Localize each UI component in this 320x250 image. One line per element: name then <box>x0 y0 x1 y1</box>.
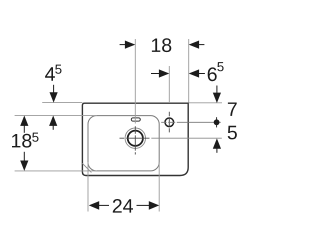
dimension 18 text <box>152 38 171 52</box>
dimension 18 left arrow <box>125 41 135 49</box>
dimension 5 up arrow tail <box>216 148 218 153</box>
dimension 18.5 text <box>12 134 31 148</box>
dimension 7 text <box>228 103 237 116</box>
extension line y=102.6 top edge left <box>42 102 82 104</box>
drain crosshair horizontal <box>120 137 150 139</box>
dimension 4.5 down arrow tail <box>53 85 55 94</box>
dimension 18 right arrow <box>189 41 199 49</box>
extension line x=88 bowl left down <box>87 162 89 212</box>
dimension 5 text <box>228 126 237 140</box>
extension line x=188.7 right edge up <box>188 39 190 103</box>
reference line y=170.9 bowl front left <box>15 170 97 172</box>
dimension 6.5 text <box>208 67 217 81</box>
extension line x=135.3 drain vertical <box>134 39 136 124</box>
faucet crosshair horizontal <box>161 121 221 123</box>
overflow slot <box>131 118 140 121</box>
dimension 6.5 left tail <box>151 73 161 75</box>
dimension 6.5 left arrow <box>159 69 169 77</box>
dimension 4.5 superscript <box>55 65 61 74</box>
dimension 4.5 down arrow <box>50 92 58 102</box>
faucet crosshair vertical <box>168 112 170 133</box>
dimension 18.5 bottom arrow <box>20 161 28 171</box>
inner bowl outline <box>88 116 159 171</box>
faucet hole <box>165 118 174 127</box>
dimension 4.5 text <box>45 67 55 80</box>
dimension 24 right segment <box>137 204 150 206</box>
extension line x=159.2 bowl right down <box>158 162 160 212</box>
dimension 24 text <box>113 199 133 213</box>
dimension 18.5 upper segment <box>23 125 25 133</box>
dimension 24 left arrow <box>89 201 99 210</box>
dimension 6.5 superscript <box>217 62 223 71</box>
dimension 24 left segment <box>99 204 110 206</box>
dot marker tick <box>216 117 218 127</box>
dimension 18.5 top arrow <box>20 116 28 126</box>
dimension 4.5 up arrow <box>49 116 57 126</box>
drain centerline extension right <box>151 137 222 139</box>
extension line x=169.3 faucet up <box>168 66 170 103</box>
dimension 18.5 lower segment <box>23 152 25 162</box>
reference line y=115.6 bowl rear left <box>15 115 97 117</box>
bowl corner transition diagonal bottom-left <box>82 163 91 172</box>
dimension 4.5 up arrow tail <box>52 125 54 130</box>
dimension 6.5 right tail <box>198 73 205 75</box>
dimension 18 left tail <box>120 44 127 46</box>
basin outer outline <box>82 103 188 175</box>
drain crosshair vertical <box>134 126 136 154</box>
drain outer circle <box>125 128 145 148</box>
shared dot marker <box>214 119 220 125</box>
dimension 7 down arrow <box>213 93 221 103</box>
dimension 24 right arrow <box>149 201 159 210</box>
dimension 18.5 superscript <box>32 133 38 142</box>
extension line y=102.8 top edge right <box>189 102 222 104</box>
dimension 5 up arrow <box>213 138 221 148</box>
dimension 6.5 right arrow <box>189 69 199 77</box>
drain ring <box>128 131 143 146</box>
dimension 7 down arrow tail <box>216 86 218 95</box>
dimension 18 right tail <box>198 44 204 46</box>
